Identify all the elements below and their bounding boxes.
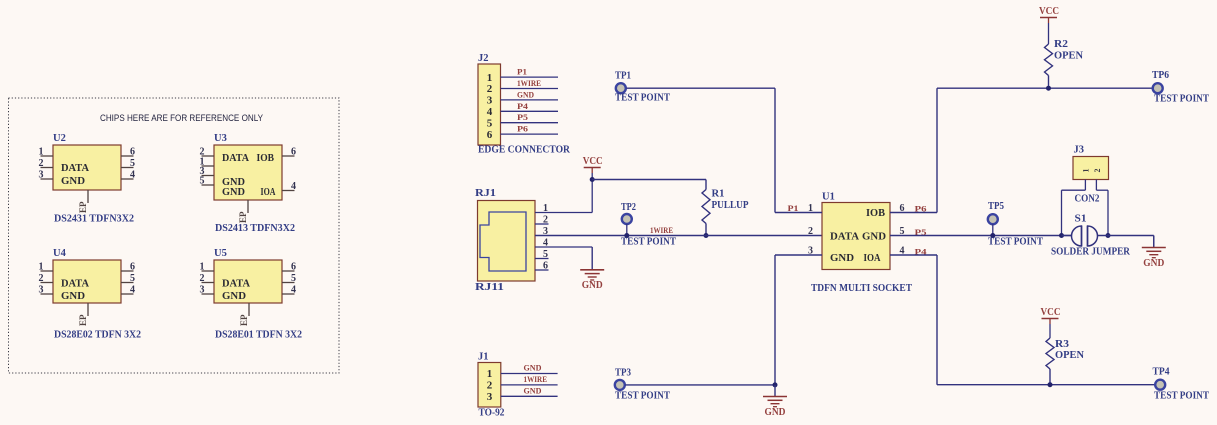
svg-text:P6: P6 [517,124,528,134]
svg-text:GND: GND [517,89,534,99]
svg-text:U3: U3 [214,133,227,144]
svg-text:R1: R1 [712,189,725,200]
svg-text:3: 3 [487,391,493,403]
svg-text:VCC: VCC [1041,307,1061,318]
svg-text:DS28E01 TDFN 3X2: DS28E01 TDFN 3X2 [215,330,302,341]
svg-text:TP5: TP5 [988,201,1004,212]
svg-text:DS2431 TDFN3X2: DS2431 TDFN3X2 [54,214,134,225]
svg-text:GND: GND [524,363,542,373]
svg-text:TP6: TP6 [1152,70,1169,81]
svg-text:2: 2 [200,273,205,284]
svg-text:DATA: DATA [61,163,89,174]
svg-text:SOLDER JUMPER: SOLDER JUMPER [1051,247,1130,258]
svg-text:GND: GND [1143,258,1164,269]
svg-text:1: 1 [487,72,493,84]
svg-text:P1: P1 [788,203,799,213]
svg-text:TP2: TP2 [621,202,636,213]
svg-text:4: 4 [130,285,135,296]
svg-text:TO-92: TO-92 [479,408,505,419]
svg-text:1WIRE: 1WIRE [650,225,673,235]
svg-text:RJ11: RJ11 [475,282,504,293]
svg-text:IOB: IOB [257,153,275,164]
svg-text:6: 6 [291,262,296,273]
svg-text:1: 1 [39,262,44,273]
svg-text:GND: GND [61,291,85,302]
svg-text:VCC: VCC [1039,6,1059,17]
svg-text:IOA: IOA [261,187,276,198]
svg-text:J3: J3 [1074,145,1085,156]
svg-text:6: 6 [487,129,493,141]
svg-text:5: 5 [200,176,205,187]
svg-text:J1: J1 [478,352,489,363]
svg-text:1: 1 [39,147,44,158]
svg-text:TEST POINT: TEST POINT [988,237,1043,248]
svg-text:3: 3 [487,95,493,107]
svg-text:EDGE CONNECTOR: EDGE CONNECTOR [478,145,570,156]
svg-text:GND: GND [524,386,542,396]
svg-text:GND: GND [830,253,854,264]
svg-text:GND: GND [222,187,245,198]
svg-text:5: 5 [130,158,135,169]
svg-text:4: 4 [291,181,296,192]
svg-text:EP: EP [78,201,88,213]
svg-text:GND: GND [765,407,786,418]
svg-text:TEST POINT: TEST POINT [615,391,670,402]
svg-text:U5: U5 [214,248,227,259]
svg-text:U1: U1 [822,192,835,203]
svg-text:6: 6 [130,147,135,158]
svg-text:3: 3 [200,285,205,296]
svg-text:TEST POINT: TEST POINT [621,237,676,248]
svg-text:4: 4 [130,170,135,181]
svg-text:5: 5 [130,273,135,284]
svg-text:VCC: VCC [583,156,603,167]
svg-text:DATA: DATA [830,232,859,243]
svg-text:DATA: DATA [222,153,249,164]
svg-text:CON2: CON2 [1075,194,1100,205]
svg-text:6: 6 [130,262,135,273]
svg-text:TP1: TP1 [615,71,631,82]
svg-text:P4: P4 [517,101,529,111]
svg-text:1WIRE: 1WIRE [517,78,541,88]
svg-text:3: 3 [39,170,44,181]
svg-text:GND: GND [862,232,886,243]
svg-text:TEST POINT: TEST POINT [1154,391,1209,402]
svg-text:2: 2 [808,226,813,237]
svg-text:1WIRE: 1WIRE [524,374,548,384]
svg-text:5: 5 [487,117,493,129]
svg-text:S1: S1 [1075,214,1087,225]
svg-text:5: 5 [291,273,296,284]
svg-text:IOA: IOA [864,253,881,264]
svg-text:TP4: TP4 [1153,367,1171,378]
svg-text:P1: P1 [517,67,527,77]
svg-text:P5: P5 [517,112,528,122]
svg-text:2: 2 [487,83,493,95]
svg-text:RJ1: RJ1 [475,188,496,199]
svg-text:OPEN: OPEN [1054,51,1083,62]
svg-text:TDFN MULTI SOCKET: TDFN MULTI SOCKET [811,283,912,294]
svg-text:OPEN: OPEN [1055,350,1084,361]
svg-text:PULLUP: PULLUP [712,200,750,211]
svg-text:DATA: DATA [222,279,250,290]
svg-text:R2: R2 [1054,39,1068,50]
svg-text:DS28E02 TDFN 3X2: DS28E02 TDFN 3X2 [54,330,141,341]
svg-text:EP: EP [238,211,248,223]
svg-text:TP3: TP3 [615,368,631,379]
svg-text:2: 2 [39,273,44,284]
svg-text:TEST POINT: TEST POINT [615,93,670,104]
svg-text:R3: R3 [1055,339,1069,350]
svg-text:J2: J2 [478,53,489,64]
svg-text:CHIPS HERE ARE FOR REFERENCE O: CHIPS HERE ARE FOR REFERENCE ONLY [100,113,264,124]
svg-text:EP: EP [239,314,249,326]
svg-text:EP: EP [78,314,88,326]
svg-text:6: 6 [291,147,296,158]
svg-text:IOB: IOB [866,208,885,219]
svg-text:GND: GND [61,176,85,187]
svg-text:1: 1 [487,368,493,380]
svg-text:U2: U2 [53,133,66,144]
svg-text:TEST POINT: TEST POINT [1154,94,1209,105]
svg-text:1: 1 [1082,169,1091,173]
svg-text:DATA: DATA [61,279,89,290]
svg-text:3: 3 [39,285,44,296]
svg-text:2: 2 [1093,169,1102,173]
svg-text:2: 2 [39,158,44,169]
svg-text:1: 1 [200,262,205,273]
svg-text:4: 4 [487,106,493,118]
svg-text:4: 4 [291,285,296,296]
svg-text:U4: U4 [53,248,67,259]
svg-text:GND: GND [222,291,246,302]
svg-text:DS2413 TDFN3X2: DS2413 TDFN3X2 [215,223,295,234]
svg-text:2: 2 [487,380,493,392]
svg-text:GND: GND [582,280,603,291]
